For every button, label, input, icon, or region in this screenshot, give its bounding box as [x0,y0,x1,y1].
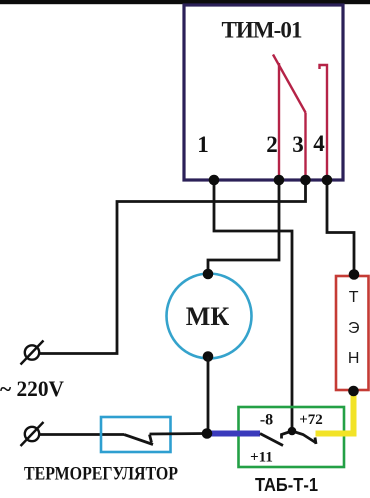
svg-text:+11: +11 [250,450,273,466]
junction node dot MK/thermostat/blue [202,428,213,439]
wire pin4 to heater top [327,180,354,274]
thermostat fixed contact tick [150,435,152,443]
svg-text:ТИМ-01: ТИМ-01 [222,18,303,43]
TAB-T-1 box [239,407,345,467]
wire MK bottom to junction node [207,357,210,434]
relay contact pin 2 lead (red) [278,63,280,180]
svg-text:МК: МК [186,302,230,331]
svg-text:3: 3 [292,132,304,157]
photo top edge [0,0,370,4]
motor MK circle [167,274,252,359]
wire lower terminal to thermostat contact [40,433,125,436]
220V lower terminal (neutral) [21,422,44,446]
MK top terminal dot [203,269,214,280]
TAB common pivot leads [282,431,317,444]
svg-text:4: 4 [313,131,325,156]
svg-text:Э: Э [348,320,360,337]
control unit U1 ТИМ-01 box [184,5,343,180]
pin 1 junction dot [209,175,220,186]
svg-text:-8: -8 [260,412,273,429]
heater TEN box [336,276,369,390]
yellow wire TAB +72 to heater bottom [316,391,354,434]
svg-text:ТАБ-Т-1: ТАБ-Т-1 [255,475,318,495]
svg-text:Т: Т [349,289,359,306]
svg-text:Н: Н [348,350,360,367]
svg-text:+72: +72 [299,412,323,428]
TAB common pivot dot [288,427,297,436]
TAB left contact arm (-8) [260,434,283,446]
blue wire junction to TAB -8 contact [210,431,260,437]
heater top terminal dot [349,269,360,280]
wire thermostat to junction node [150,432,208,435]
220V upper terminal (phase) [21,341,44,365]
wire pin1 to TAB switch common [214,180,292,431]
thermostat box [101,417,171,452]
relay contact pin 4 lead with hook (red) [320,65,328,180]
wire pin2 to MK motor top [208,180,279,274]
svg-text:2: 2 [266,132,278,157]
wire pin3 to 220V upper terminal [40,180,306,354]
svg-text:~ 220V: ~ 220V [0,376,64,401]
MK bottom terminal dot [203,351,214,362]
pin 3 junction dot [300,175,311,186]
svg-text:ТЕРМОРЕГУЛЯТОР: ТЕРМОРЕГУЛЯТОР [24,464,178,485]
pin 4 junction dot [322,175,333,186]
relay contact pin 3 lead (red) [304,113,306,181]
heater bottom terminal dot [348,386,359,397]
svg-text:1: 1 [197,132,209,157]
thermostat contact arm [124,435,153,445]
pin 2 junction dot [274,175,285,186]
relay contact moving arm (red) [273,55,306,113]
